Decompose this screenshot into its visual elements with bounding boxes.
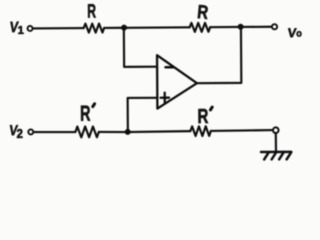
op-amp U1 minus sign (inverting input) bbox=[166, 66, 174, 69]
wire V2 terminal to resistor R3 bbox=[34, 131, 76, 134]
svg-text:2: 2 bbox=[17, 126, 24, 141]
wire ground terminal down to ground bbox=[275, 133, 277, 152]
svg-text:R: R bbox=[87, 1, 96, 23]
svg-text:o: o bbox=[296, 28, 302, 39]
label V2 bbox=[8, 122, 23, 141]
label R' (R3) bbox=[80, 101, 91, 126]
label R' (R4) bbox=[197, 105, 208, 128]
wire R2 to node B bbox=[210, 26, 240, 28]
wire node B to output terminal bbox=[241, 26, 272, 28]
wire node A down to inverting input bbox=[124, 28, 157, 67]
terminal V1 bbox=[28, 26, 33, 31]
wire R1 to R2 (through node A) bbox=[104, 26, 189, 29]
ground bbox=[261, 152, 291, 160]
op-amp U1 bbox=[157, 55, 197, 109]
svg-text:R: R bbox=[196, 0, 209, 23]
resistor R3 (R' left) bbox=[75, 126, 99, 137]
wire R4 to ground terminal bbox=[211, 129, 273, 132]
op-amp U1 plus sign (non-inverting input) bbox=[160, 93, 169, 103]
wire V1 terminal to resistor R1 bbox=[33, 27, 84, 30]
terminal V2 bbox=[28, 129, 33, 134]
svg-text:R: R bbox=[197, 105, 208, 128]
svg-text:R: R bbox=[80, 101, 91, 126]
label R (R1) bbox=[87, 1, 96, 23]
label R' apostrophe (R3) bbox=[93, 104, 95, 107]
resistor R2 (feedback R) bbox=[190, 23, 211, 32]
node A junction dot bbox=[121, 25, 127, 31]
node C junction dot bbox=[125, 129, 131, 135]
label R (R2) bbox=[196, 0, 210, 23]
wire R3 to R4 (through node C) bbox=[99, 131, 191, 132]
wire node C up to non-inverting input bbox=[128, 98, 158, 132]
terminal at ground node bbox=[273, 127, 279, 133]
node B junction dot bbox=[238, 24, 244, 30]
resistor R4 (R' right) bbox=[190, 126, 211, 136]
svg-text:1: 1 bbox=[18, 25, 24, 37]
label Vo bbox=[287, 25, 302, 40]
wire node B down to op-amp output bbox=[197, 27, 242, 83]
label R' apostrophe (R4) bbox=[210, 107, 212, 110]
resistor R1 bbox=[84, 24, 105, 33]
label V1 bbox=[9, 18, 24, 37]
terminal Vo bbox=[272, 24, 277, 29]
